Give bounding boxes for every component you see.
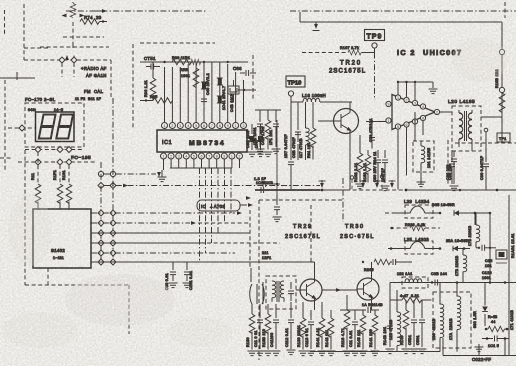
resistor R107: [302, 49, 375, 56]
node P2a: [98, 220, 104, 226]
capacitor C105 on rail: [0, 0, 1, 1]
wire dashed drop to FM CAL: [62, 60, 111, 98]
wire dash x343: [342, 178, 344, 222]
resistor R141: [318, 302, 327, 356]
trimmer CT5: [144, 56, 160, 70]
wire vertical bus x101: [100, 162, 102, 262]
capacitor C89: [366, 120, 388, 148]
capacitor C85: [256, 110, 265, 154]
wire row213: [91, 211, 242, 215]
node P2b: [110, 220, 116, 226]
IC1 MB8734 body: [157, 130, 247, 152]
resistor R100: [172, 56, 201, 65]
capacitor C115: [482, 336, 510, 342]
node P1a: [98, 210, 104, 216]
node P6a: [98, 259, 104, 265]
wire top supply rail: [66, 10, 516, 12]
inductor L7C lower: [463, 249, 467, 283]
inductor L30: [440, 283, 444, 352]
wire arrow to rail: [90, 9, 107, 13]
TP11 box: [497, 133, 510, 142]
op-amp IC2: [392, 95, 435, 130]
resistor R95: [140, 95, 173, 103]
node display left: [8, 125, 35, 131]
resistor R142: [327, 310, 336, 356]
wire display bottom row1: [25, 149, 84, 151]
wire row262: [91, 261, 315, 263]
op-amp top rail: [397, 81, 438, 100]
wire IC1 pin1 ground: [163, 159, 165, 170]
wire vertical bus x113: [112, 98, 114, 262]
transistor TR29: [296, 262, 322, 310]
ceramic filter CF1: [250, 268, 265, 304]
wire osc right: [238, 89, 256, 91]
capacitor C38: [435, 280, 438, 286]
label C115: [488, 344, 499, 348]
wire right verticals: [470, 213, 490, 282]
wire dashed row B: [40, 44, 109, 50]
wire bottom right: [443, 338, 516, 356]
wire vertical dash x311: [310, 205, 312, 262]
transistor TR30: [357, 262, 379, 310]
wire display bottom row2: [18, 161, 96, 163]
TP10 test point: [286, 76, 305, 96]
capacitor C93: [448, 140, 455, 185]
wire stub below box: [47, 268, 49, 285]
capacitor C99: [483, 128, 489, 190]
capacitor C86: [272, 110, 281, 154]
node J1: [59, 57, 65, 63]
node J2: [71, 57, 77, 63]
inductor L25: [388, 241, 441, 254]
node row174 b: [110, 171, 115, 176]
inductor L16: [291, 93, 352, 102]
wire top right corner dash: [504, 2, 506, 18]
wire dashed row C with connectors: [24, 59, 111, 61]
IC S1402 box: [33, 209, 91, 268]
node row185 b: [110, 183, 116, 189]
capacitor C20: [183, 262, 192, 288]
ground L31: [417, 182, 426, 187]
wire row253: [91, 252, 235, 254]
wire vertical dash x250: [249, 210, 251, 268]
resistor R146: [371, 310, 380, 356]
diode D40: [482, 283, 488, 327]
inductor L7A: [457, 283, 461, 352]
wire IC1 pin verticals up: [165, 62, 244, 122]
resistor R99: [180, 68, 199, 88]
capacitor C50: [169, 262, 178, 288]
capacitor C88: [295, 102, 301, 160]
resistor R102: [356, 135, 365, 189]
7-seg digit 2: [56, 115, 73, 139]
resistor R238: [390, 225, 440, 231]
node row174 a: [98, 171, 103, 176]
op-amp bottom drops: [398, 121, 423, 190]
node arrows row: [65, 55, 76, 60]
wire dashed row A: [63, 36, 104, 38]
test point TP9: [365, 30, 385, 49]
capacitor C70: [256, 124, 265, 157]
inductor L29: [385, 205, 441, 218]
inductor L28: [397, 290, 401, 352]
capacitor C66: [233, 66, 256, 76]
7-seg display body: [36, 112, 75, 142]
wire right column vertical: [508, 195, 510, 282]
resistor R45: [35, 184, 41, 209]
wire TR29 to TR30: [322, 288, 357, 292]
resistor R139: [299, 302, 308, 356]
node right mid: [499, 87, 504, 92]
resistor R118: [343, 295, 352, 356]
inductor L32: [402, 277, 433, 288]
capacitor C84 input: [254, 177, 280, 187]
wire drop to C106: [276, 120, 278, 196]
wire top-left branch: [72, 22, 74, 46]
wire left border lower: [0, 80, 11, 172]
transformer L20: [452, 106, 481, 151]
bottom section top rail: [390, 281, 516, 284]
IC1 top pins: [162, 123, 247, 129]
capacitor C98: [450, 151, 459, 191]
node P4b: [110, 240, 116, 246]
node P5b: [110, 250, 116, 256]
pin numbers: [163, 96, 439, 159]
op-amp bottom pins: [395, 115, 425, 129]
capacitor C104 on rail: [256, 181, 273, 193]
resistor R86: [264, 110, 273, 157]
capacitor C90: [375, 150, 381, 183]
capacitor C40: [201, 99, 207, 102]
node E1: [35, 159, 41, 165]
resistor R74: [62, 2, 85, 18]
capacitor C56: [386, 322, 395, 354]
resistor R150: [485, 326, 510, 332]
node P3b: [110, 230, 116, 236]
bottom rail lower: [310, 351, 440, 353]
capacitor C118: [476, 245, 496, 251]
IC1 bottom pins: [161, 153, 243, 159]
inductor L31 box: [413, 112, 434, 184]
wire row174 to ground: [104, 172, 161, 177]
resistor R75: [80, 19, 107, 25]
resistor R147: [390, 283, 432, 323]
resistor R46: [57, 184, 63, 209]
label C94: [262, 251, 271, 260]
diode D11: [201, 82, 207, 89]
resistor R103: [365, 150, 371, 183]
inductor L17: [306, 102, 310, 160]
wire TP9 drop: [374, 53, 376, 101]
node P3a: [98, 230, 104, 236]
diode pair 2 on rail: [360, 180, 367, 188]
wire row243: [91, 242, 205, 244]
wire row243 dashes: [207, 242, 280, 244]
wire right edge vertical bottom: [508, 282, 510, 355]
ground rail mid: [255, 189, 516, 192]
inductor box L30/L7A: [433, 292, 471, 348]
wire dashed top of osc section: [133, 43, 215, 128]
capacitor C46: [340, 307, 379, 313]
label C120: [482, 271, 492, 280]
resistor R203: [362, 259, 412, 265]
node row185 a: [98, 183, 104, 189]
IC A703 callout box: [197, 196, 253, 211]
wire row223: [91, 221, 250, 225]
wire op-amp out: [440, 111, 452, 113]
wire L20 out: [472, 117, 502, 151]
wire IC1 bottom tie: [170, 159, 240, 168]
capacitor C91: [381, 150, 390, 191]
capacitor C111: [272, 304, 281, 356]
resistor R47: [66, 184, 72, 209]
diode pair 3 on rail: [350, 175, 395, 189]
node E3: [66, 159, 72, 165]
capacitor C110: [256, 304, 265, 356]
diode D12: [217, 78, 223, 85]
wire drops to resistors: [38, 152, 69, 184]
dashed section border: [259, 200, 345, 360]
IC1 bottom pin drop bus: [200, 168, 232, 262]
capacitor C113: [307, 310, 316, 356]
crystal X1: [228, 80, 239, 102]
transistor TR20: [318, 102, 359, 190]
op-amp top pins: [395, 95, 425, 109]
label C118: [485, 259, 493, 268]
capacitor C112: [287, 302, 296, 355]
inductor L7B upper: [476, 213, 480, 248]
resistor R108: [499, 93, 505, 113]
wire row185 long: [104, 184, 320, 188]
capacitor C87: [288, 102, 294, 189]
resistor R149: [402, 300, 411, 354]
node P5a: [98, 250, 104, 256]
diode D25A: [453, 246, 470, 252]
diode top feed: [313, 22, 320, 31]
ceramic filter CF2: [496, 250, 507, 263]
diode D35: [454, 210, 470, 216]
diode D13: [217, 96, 223, 103]
resistor R101: [310, 102, 316, 160]
wire osc top rail: [140, 61, 248, 63]
capacitor C59: [418, 300, 427, 354]
wire row233: [91, 232, 250, 234]
node D1: [35, 147, 41, 153]
resistor R145: [359, 310, 368, 356]
wire left border dashes: [4, 10, 6, 36]
capacitor C106: [273, 195, 282, 222]
node E2: [57, 159, 63, 165]
right feed line: [501, 22, 503, 143]
capacitor C68: [252, 55, 254, 100]
wire corner top-left dashed: [24, 4, 50, 60]
diode pair 1 on rail: [319, 180, 326, 188]
label R148: [488, 315, 498, 324]
transformer T2: [266, 276, 296, 309]
capacitor C58: [410, 300, 419, 354]
op-amp left pins: [386, 101, 391, 123]
node P6b: [110, 259, 116, 265]
resistor R96: [144, 62, 156, 101]
wire left stub: [0, 72, 35, 80]
node P4a: [98, 240, 104, 246]
7-seg digit 1: [39, 115, 56, 139]
ground row174: [158, 170, 167, 182]
resistor R138: [264, 304, 273, 356]
capacitor C114: [351, 310, 360, 356]
node D3: [66, 147, 72, 153]
wire y110: [255, 109, 281, 111]
wire dashed across right: [455, 142, 516, 144]
wire top right feed: [300, 12, 502, 22]
dashed enclosure left edge: [25, 150, 129, 334]
node D2: [57, 147, 63, 153]
resistor R130: [248, 304, 257, 356]
node right top: [499, 49, 504, 54]
op-amp output pin: [434, 109, 439, 114]
node P1b: [110, 210, 116, 216]
capacitor C6B: [248, 124, 257, 157]
display module dashed box: [25, 103, 84, 147]
